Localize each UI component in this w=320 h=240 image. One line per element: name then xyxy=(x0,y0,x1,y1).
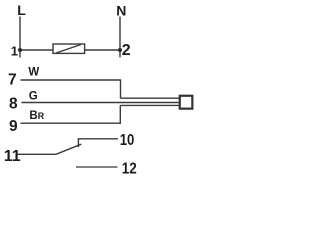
svg-text:11: 11 xyxy=(4,148,21,165)
svg-text:W: W xyxy=(28,67,39,79)
wire 9 vertical rise xyxy=(119,105,121,123)
wire 11 horizontal xyxy=(18,153,57,155)
wire fuse to node2 xyxy=(85,49,120,51)
svg-text:7: 7 xyxy=(8,71,17,88)
svg-text:1: 1 xyxy=(11,44,18,59)
svg-text:BR: BR xyxy=(29,110,44,122)
harness top wire xyxy=(121,97,180,99)
svg-text:10: 10 xyxy=(120,132,135,149)
wire L vertical xyxy=(19,17,21,58)
wire 9 horizontal xyxy=(21,122,122,124)
node 1 junction dot xyxy=(18,48,22,52)
wire node1 to fuse xyxy=(20,49,53,51)
wire 12 stub xyxy=(76,166,118,168)
svg-text:N: N xyxy=(116,2,126,18)
wire 7 horizontal xyxy=(21,79,122,81)
svg-text:G: G xyxy=(29,90,38,102)
svg-text:2: 2 xyxy=(122,42,131,59)
node 2 junction dot xyxy=(118,48,122,52)
fuse diagonal xyxy=(56,45,81,54)
harness bottom wire xyxy=(120,104,179,106)
svg-text:9: 9 xyxy=(9,118,18,135)
svg-text:12: 12 xyxy=(122,161,137,178)
fuse body xyxy=(53,44,85,53)
connector plug xyxy=(180,96,193,109)
svg-text:8: 8 xyxy=(9,96,18,113)
switch fixed contact hook xyxy=(78,139,118,147)
svg-text:L: L xyxy=(17,2,26,18)
wire 7 vertical drop xyxy=(120,80,122,98)
wire 8 horizontal xyxy=(22,102,180,104)
wire N vertical xyxy=(119,17,121,58)
switch moving contact blade xyxy=(56,144,81,154)
